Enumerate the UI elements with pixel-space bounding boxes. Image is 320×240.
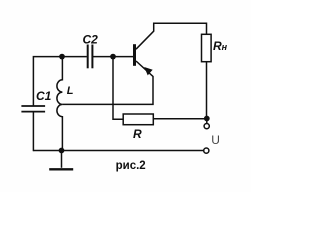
svg-text:рис.2: рис.2 [116, 160, 146, 172]
resistor Rн (load) [202, 34, 212, 61]
wire: C1 bottom to bottom rail [32, 112, 34, 152]
capacitor C1 [21, 106, 45, 112]
node: junction dot L / top rail [59, 54, 65, 60]
transistor VT1 (PNP) base bar [133, 44, 136, 66]
terminal: upper output circle [204, 124, 209, 129]
capacitor C2 [88, 45, 93, 69]
wire: base junction down to resistor R [113, 57, 123, 120]
wire: C2 right plate to transistor base [92, 56, 133, 58]
wire: Rн bottom to output node [206, 62, 208, 119]
wire: R right side to output node [153, 118, 207, 120]
transistor collector wire to top rail and Rn [136, 23, 207, 49]
svg-text:Rн: Rн [213, 39, 228, 53]
svg-text:C2: C2 [83, 33, 99, 47]
svg-text:L: L [67, 85, 74, 97]
terminal: lower output circle [204, 148, 209, 153]
svg-text:C1: C1 [36, 89, 52, 103]
node: junction dot base / R branch [110, 54, 116, 60]
transistor emitter arrow [145, 68, 151, 74]
svg-text:U: U [211, 133, 220, 147]
wire: stub to upper terminal [206, 119, 208, 123]
wire: bottom rail [33, 150, 203, 152]
resistor R [123, 114, 153, 125]
svg-text:R: R [133, 127, 142, 141]
wire: top rail left segment (C1 top to C2 left plate) [33, 57, 87, 106]
inductor L (tapped coil) [57, 57, 63, 151]
transistor emitter wire to coil tap [62, 61, 153, 104]
node: output junction dot [204, 116, 210, 122]
node: ground junction dot [59, 148, 65, 154]
ground [61, 151, 63, 168]
